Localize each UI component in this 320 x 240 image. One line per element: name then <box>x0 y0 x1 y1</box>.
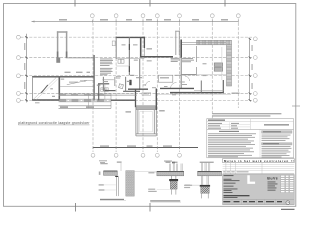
corridor ramp text <box>69 82 78 83</box>
general note text top right <box>212 113 281 114</box>
detail 3 pipes <box>201 163 209 172</box>
detail 1 top texts <box>100 163 107 164</box>
bottom row of title block <box>223 198 295 200</box>
fold mark right middle <box>292 105 300 107</box>
band lines extension <box>111 93 137 95</box>
room 1.09 east wall <box>58 77 60 101</box>
ramp arrow dark <box>41 85 48 93</box>
detail 2 pier hatch <box>170 181 177 189</box>
svg-text:BuVé: BuVé <box>267 176 278 180</box>
project table header <box>208 120 225 121</box>
bay tower top <box>57 31 68 58</box>
grid line V7 x238.3 <box>237 19 239 109</box>
logo address rows <box>268 182 278 191</box>
thin line y94.3 <box>157 93 231 95</box>
south wall B y92.6 <box>170 92 224 94</box>
top grid bubbles <box>90 14 240 18</box>
room 1.09 south wall <box>32 99 60 101</box>
dim texts above north wall <box>65 72 71 73</box>
notes divider <box>207 128 294 130</box>
notes right rows 1 <box>262 135 291 141</box>
meterkast boxes <box>118 59 121 63</box>
detail 1 wall below <box>115 177 117 196</box>
title block left rows <box>224 175 240 193</box>
wall V1 vertical <box>93 55 95 101</box>
north wall left wing <box>32 76 93 78</box>
right wing top double wall <box>181 41 227 43</box>
door square rotated <box>119 84 124 89</box>
grid line HC y75.7 <box>21 75 253 77</box>
label up <box>50 88 53 89</box>
text right of SE corner <box>232 93 240 94</box>
texts near cabinet <box>175 75 183 76</box>
wall x104.9 thin <box>104 84 106 100</box>
texts below bottom bubbles <box>99 160 107 161</box>
central east wall dark <box>143 37 145 48</box>
detail 3 pier below <box>201 193 203 198</box>
south wall center-top y56.7 <box>140 56 173 58</box>
corridor ramp arrow <box>67 81 87 85</box>
detail 2 dim text right <box>185 185 191 186</box>
revision cells column right <box>281 175 294 192</box>
detail 1 label kruipruimte <box>99 189 105 190</box>
fold mark top x150 <box>149 0 151 7</box>
wall line y79.8 <box>102 79 114 81</box>
detail 3 pier hatch <box>201 187 210 194</box>
bottom dimension line <box>93 147 198 149</box>
grid line V2 x116 <box>115 19 117 153</box>
detail 3 neck lines <box>201 176 208 185</box>
protrusion labels <box>126 111 132 112</box>
detail 3 pier cap <box>200 185 210 187</box>
cabinet box center <box>158 75 172 82</box>
small text x103 y81 <box>103 81 108 82</box>
notes left column header <box>219 131 239 132</box>
detail 2 pier cap <box>169 179 178 181</box>
notes left column rows <box>208 133 256 157</box>
label 1.08 <box>97 85 101 86</box>
detail 1 dark bearing <box>115 176 118 177</box>
label below room 1.09 <box>35 102 40 103</box>
central cluster top wall <box>116 36 145 38</box>
detail 2 pipes above slab <box>170 164 183 172</box>
wall x103.4 <box>102 77 104 91</box>
room divider line y58.7 <box>116 58 145 60</box>
detail 1 label isolatie <box>99 184 104 185</box>
bay base block <box>56 57 60 62</box>
revision header texts <box>223 170 248 173</box>
wall y89 x128-148 <box>128 88 148 90</box>
sanitary boxes <box>214 63 223 67</box>
right wing hatch band top <box>197 40 232 45</box>
label 1.19 lower <box>147 60 152 61</box>
bottom grid bubbles <box>91 153 181 157</box>
detail 1 caption <box>100 199 124 200</box>
right grid bubbles <box>253 37 257 102</box>
revision table <box>223 165 295 171</box>
room 1.09 west wall <box>32 77 34 100</box>
protrusion walls <box>136 107 156 136</box>
grid line V6 x212.3 <box>211 19 213 159</box>
detail 1 ground slab tall <box>126 171 135 197</box>
central west wall <box>115 37 117 58</box>
dark column <box>129 80 131 85</box>
texts lower right wing <box>180 82 185 83</box>
fold mark bottom x75 <box>75 203 77 212</box>
stamp circle <box>286 201 290 205</box>
project table box <box>207 119 294 158</box>
detail 3 left labels <box>184 185 192 186</box>
wall x125.6 <box>125 77 127 92</box>
detail 2 pier below <box>170 189 172 195</box>
wall y90.6 <box>105 90 116 92</box>
grid line HB y57.5 <box>21 57 253 59</box>
left grid bubbles <box>17 35 21 102</box>
fold mark top x225 <box>224 0 226 7</box>
label 1.11 <box>127 81 130 82</box>
note text small <box>116 75 121 78</box>
stair band cells row2 <box>59 100 104 102</box>
door arc central <box>146 81 150 86</box>
notes right header bar 2 <box>262 143 293 145</box>
detail 2 caption <box>150 200 180 201</box>
door arc 1 <box>185 76 190 81</box>
right wing inner wall x196.4 <box>195 46 197 62</box>
left dimension line <box>26 34 28 103</box>
room labels right wing <box>203 63 207 64</box>
SE corner walls <box>200 81 202 93</box>
wall x114.8 <box>114 77 116 86</box>
wall y74.6 right wing <box>181 74 196 76</box>
wall x135.5 <box>135 89 137 107</box>
detail 1 dim tick <box>99 172 101 175</box>
beton note rows <box>171 58 194 62</box>
grid line HD y93.4 <box>21 92 253 94</box>
right dimension line <box>249 39 251 101</box>
logo white L <box>247 175 255 184</box>
grid line HE y100.3 <box>21 99 253 101</box>
band shaft edge <box>88 94 90 108</box>
south wall A y88.4 <box>160 87 194 89</box>
banner meten in het werk <box>223 159 295 163</box>
detail 1 level line <box>120 163 122 171</box>
detail 2 left label <box>148 172 154 173</box>
detail 2 pier neck <box>170 176 172 179</box>
protrusion inner lines <box>140 112 153 132</box>
wall y91.3 <box>123 90 140 92</box>
connecting thin line to detail 2 <box>134 171 157 173</box>
top dim texts <box>59 19 228 20</box>
corridor line 2 <box>60 85 93 87</box>
wall segment y83.8 <box>98 83 109 85</box>
inner wall x221.9 <box>221 47 223 80</box>
cut mark bottom right <box>281 208 295 210</box>
notes right column header bar <box>262 131 293 134</box>
notes right rows 2 <box>262 146 292 157</box>
top dim ticks <box>92 20 238 22</box>
grid line V3 x143 <box>142 19 144 153</box>
detail 3 floor slab <box>198 171 222 175</box>
detail 3 top text <box>200 162 214 163</box>
detail 2 top texts <box>166 162 171 163</box>
label near 1.02 <box>152 87 156 88</box>
cells right of x98.7 <box>101 88 104 92</box>
wall x156.3 <box>155 89 157 111</box>
detail 2 labels lower left <box>148 189 155 190</box>
right wing hatch band right <box>227 45 232 86</box>
grid line V1 x93 <box>92 19 94 153</box>
band right edge <box>110 94 112 108</box>
bottom dim texts <box>100 146 172 147</box>
central mid wall <box>128 37 130 75</box>
fold mark bottom x150 <box>149 203 151 212</box>
page frame <box>4 4 296 207</box>
labeled cell above landing <box>142 93 151 96</box>
wall x98.7 <box>98 84 100 100</box>
ramp diagonal 1 <box>33 78 56 100</box>
label bk <box>52 96 55 97</box>
stair band cells row3 <box>60 106 94 108</box>
wall x139.7 <box>139 59 141 90</box>
grid line V4 x157.3 <box>156 19 158 153</box>
top dimension line <box>32 21 239 23</box>
right wing west wall <box>180 40 182 58</box>
pier x175-180 <box>175 31 180 55</box>
west niche box <box>112 41 115 46</box>
landing gray band <box>136 106 155 110</box>
stair bands <box>59 94 112 108</box>
project rows <box>207 124 251 126</box>
room labels central <box>122 44 126 45</box>
door arc 2 <box>171 82 177 88</box>
svg-text:plattegrond constructie laagst: plattegrond constructie laagste grondvlo… <box>18 121 90 125</box>
grid line HA y37.2 <box>21 36 253 38</box>
fold mark top x75 <box>74 0 76 7</box>
bay wall dark stubs <box>57 52 59 58</box>
svg-text:Meten in het werk controleren: Meten in het werk controleren !! <box>224 159 294 163</box>
wall bay to V1 <box>66 57 95 59</box>
ramp diagonal 2 <box>36 79 58 100</box>
south wall center y100.2 <box>111 99 136 101</box>
label 1.03 <box>143 84 146 85</box>
corridor line 1 <box>80 80 93 82</box>
note text block right of V1 <box>100 59 113 76</box>
corridor room label <box>61 79 64 80</box>
dark wall x140.4 upper <box>140 38 142 58</box>
stair band cells row1 <box>60 94 104 95</box>
detail 1 floor slab <box>104 171 118 175</box>
grid line V5 x179.5 <box>179 19 181 153</box>
room divider line y66 <box>116 65 129 67</box>
title block gray panel <box>223 175 295 205</box>
detail 2 floor slab <box>157 171 184 175</box>
